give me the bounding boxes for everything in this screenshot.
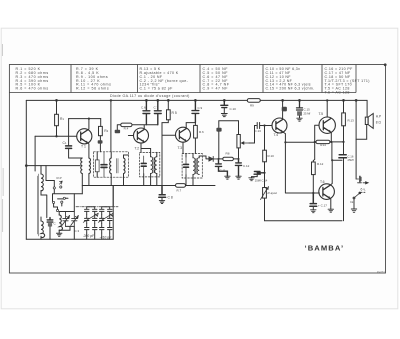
IF strip bottom bus (82, 185, 215, 187)
capacitor AGC blob (216, 128, 221, 132)
svg-text:+ C.17: + C.17 (318, 204, 327, 208)
pickup jack R.P contacts (53, 181, 62, 189)
svg-text:T.6: T.6 (320, 180, 325, 184)
svg-text:280 pF: 280 pF (83, 234, 95, 238)
wire rail drop to IF1 primary (110, 100, 112, 151)
svg-text:-410 pF: -410 pF (100, 235, 113, 239)
outer schematic frame (9, 65, 385, 274)
svg-text:C.13: C.13 (255, 129, 262, 133)
capacitor IF1 internal (101, 165, 107, 168)
IF2 leads (141, 149, 157, 186)
svg-text:C.10: C.10 (230, 107, 237, 111)
coil IF3 w1 (193, 158, 195, 175)
resistor R1 (56, 100, 58, 114)
parts table right border (355, 65, 357, 93)
coil IF2 w2 (155, 157, 157, 174)
speaker (365, 114, 373, 129)
band switch contacts (53, 197, 66, 211)
svg-text:R14: R14 (320, 143, 326, 147)
capacitor C16 (339, 155, 347, 158)
svg-text:H.P: H.P (376, 115, 381, 119)
ground C17 (311, 210, 316, 213)
svg-text:R2: R2 (104, 129, 108, 133)
wire osc coil top (59, 212, 65, 216)
wire T2 emitter to IF2 (140, 143, 142, 152)
capacitor C6 (143, 100, 150, 124)
resistor R5 (167, 100, 169, 109)
node R10 bottom (263, 172, 265, 174)
capacitor C8 electrolytic (159, 186, 166, 198)
wire T4 base (265, 125, 273, 127)
svg-text:C.6: C.6 (141, 106, 146, 110)
capacitor C1 (68, 119, 70, 146)
wire T1 emitter to IF1 (88, 143, 89, 158)
resistor R2 (100, 119, 102, 127)
node rail junctions (384, 63, 387, 66)
scan artifact marks left edge (2, 44, 5, 232)
ground C14 (249, 178, 254, 181)
antenna coil L2 (41, 221, 45, 237)
wire AGC line (26, 165, 80, 167)
capacitor C14 (254, 172, 264, 175)
ground C11 (225, 176, 230, 179)
svg-text:C.7: C.7 (154, 106, 159, 110)
volume potentiometer (237, 135, 240, 148)
svg-text:R.12 = 56 ohms: R.12 = 56 ohms (76, 87, 109, 91)
ferrite rod (38, 174, 39, 236)
ground C15 (297, 118, 302, 121)
svg-text:R.10: R.10 (268, 154, 275, 158)
svg-text:25Mf C.14: 25Mf C.14 (255, 179, 268, 183)
svg-text:T 1: T 1 (81, 145, 86, 149)
trimmer cap CT2 (71, 212, 79, 227)
wire T1 base line (35, 135, 77, 137)
svg-text:C.1 = 75 à 82 pF: C.1 = 75 à 82 pF (140, 87, 174, 91)
table divider 3 (199, 65, 201, 93)
table divider 4 (262, 65, 264, 93)
coil IF3 w2 (197, 158, 199, 175)
svg-text:8 Ω: 8 Ω (376, 121, 382, 125)
svg-text:T.5: T.5 (319, 112, 324, 116)
circuit labels (54, 103, 386, 274)
svg-text:R 5: R 5 (172, 111, 177, 115)
resistor R14 (316, 140, 330, 143)
svg-text:C.15: C.15 (304, 108, 311, 112)
svg-text:Diode OA.117 ou diode d’usage: Diode OA.117 ou diode d’usage (courant) (110, 94, 190, 98)
wire T2 base from IF1 (128, 135, 133, 137)
svg-text:R8: R8 (226, 152, 230, 156)
table divider 2 (137, 65, 139, 93)
wire T3 collector (186, 123, 195, 129)
svg-text:T.4: T.4 (274, 133, 279, 137)
svg-text:25 Mf: 25 Mf (304, 112, 311, 116)
collector blob T4 (282, 100, 284, 119)
wire L2 bottom to rail (40, 236, 42, 239)
transistor T1 (77, 129, 92, 144)
capacitor IF2 internal (141, 163, 146, 166)
svg-text:C 8: C 8 (168, 196, 173, 200)
svg-text:C.3: C.3 (75, 229, 80, 233)
wire trimmer tops/bottoms (59, 194, 74, 239)
wire T6 collector up (330, 160, 342, 185)
transistor T5 (319, 117, 335, 133)
svg-text:C.15 = 200 NF 6,3 v(chm.: C.15 = 200 NF 6,3 v(chm. (266, 87, 315, 91)
capacitor C12 (235, 159, 241, 176)
wire L1-L2 link (41, 191, 47, 222)
transistor T4 (272, 118, 287, 133)
diode D1 (206, 156, 209, 159)
resistor R9 on rail (247, 99, 260, 103)
coil osc primary w1 (81, 158, 83, 174)
wire rail to speaker (366, 100, 368, 117)
capacitor C9 (192, 100, 199, 122)
resistor R7 (on bus) (176, 184, 186, 188)
tuning gang section B (98, 207, 113, 239)
ground switch (351, 199, 356, 212)
capacitor C15 stack (297, 100, 303, 110)
svg-text:C1: C1 (63, 141, 67, 145)
transistor T2 (134, 128, 149, 143)
svg-text:T.6 = AC 128: T.6 = AC 128 (325, 90, 350, 94)
node base T4 (263, 124, 265, 126)
wire IF1 w3/w4 tops (111, 152, 128, 158)
wire osc coil bottom (58, 230, 60, 233)
wire T4 emitter down (283, 132, 315, 193)
svg-text:C.9: C.9 (198, 106, 203, 110)
gang top feeds (87, 186, 114, 240)
wire T5 base drop (315, 125, 319, 142)
wire IF1 w3/w4 bottoms (111, 174, 123, 186)
svg-text:6 v.: 6 v. (361, 188, 366, 192)
switch (355, 192, 366, 197)
capacitor IF3 internal (184, 164, 189, 167)
wire speaker bottom return (356, 125, 367, 140)
table divider 1 (70, 65, 72, 93)
capacitor C7 (154, 100, 161, 124)
ground C8 (159, 201, 164, 204)
ground osc (57, 233, 62, 236)
svg-text:T.2: T.2 (135, 147, 140, 151)
core IF3 (196, 159, 197, 174)
wire T5 collector to rail (326, 100, 328, 117)
wire R12 drop (313, 142, 314, 162)
svg-text:R ajust: R ajust (268, 191, 278, 195)
IF transformer 1 dashed can (94, 152, 129, 177)
coil osc secondary w2 (89, 158, 91, 174)
oscillator coil (59, 215, 62, 230)
core IF2 (153, 158, 154, 173)
ground T6 (328, 209, 333, 212)
wire T1 collector up (88, 119, 89, 130)
wire w1/w2 bottoms (82, 174, 89, 194)
dash-dot gang coupling line (76, 206, 118, 208)
svg-text:C.9 = 47 NF: C.9 = 47 NF (203, 87, 229, 91)
antenna coil L1 (41, 174, 43, 191)
core lines (117, 159, 118, 174)
svg-text:C.11: C.11 (220, 169, 226, 173)
tuning slug (95, 160, 99, 172)
svg-text:25Mf: 25Mf (348, 158, 354, 162)
top supply rail (26, 99, 367, 101)
table divider 5 (321, 65, 323, 93)
IF transformer 2 dashed can (140, 152, 160, 177)
resistor R8 (219, 158, 223, 160)
parts list text (16, 67, 370, 98)
svg-text:R.P: R.P (57, 176, 62, 180)
svg-text:R.6: R.6 (199, 130, 204, 134)
wire pot top to AGC cap (219, 121, 239, 135)
wire T5 emitter / junction down (331, 142, 333, 160)
svg-text:R.4: R.4 (124, 127, 129, 131)
svg-text:Int: Int (350, 200, 354, 204)
ground C10 (221, 114, 227, 117)
transistor T6 (319, 184, 335, 200)
battery terminal + arrow (356, 177, 368, 184)
wire T3 base (162, 135, 176, 185)
capacitor C17 (310, 193, 317, 206)
svg-text:PH.Bd: PH.Bd (377, 270, 385, 274)
resistor R4 (121, 123, 132, 127)
resistor R ajustable (264, 173, 266, 188)
resistor R13 (343, 100, 345, 113)
wire T5 emitter down (330, 132, 333, 142)
wire wiper to C13 (249, 126, 255, 144)
wire bottom-left ground rail (26, 238, 113, 240)
IF3 leads (186, 154, 206, 186)
capacitor C13 (255, 123, 265, 129)
svg-text:R.13: R.13 (348, 119, 355, 123)
wire T6 base (313, 192, 319, 194)
resistor R12 (312, 162, 316, 175)
wire battery feed (355, 100, 357, 179)
coil IF1 w4 (124, 158, 126, 174)
resistor R6 (194, 123, 196, 126)
svg-text:R1: R1 (60, 117, 64, 121)
capacitor C10 (221, 100, 228, 107)
tuning gang section A (83, 207, 98, 239)
wire switch links (46, 166, 82, 210)
transistor T3 (176, 127, 191, 142)
resistor R10 (264, 126, 266, 151)
svg-text:‘BAMBA’: ‘BAMBA’ (305, 243, 345, 252)
wire left vertical drop (25, 100, 27, 239)
IF transformer 3 dashed can (182, 154, 202, 179)
svg-text:C.16: C.16 (348, 155, 354, 159)
svg-text:R.12: R.12 (317, 162, 324, 166)
wire gang feed (112, 186, 114, 207)
trimmer cap CT1 (62, 212, 70, 227)
capacitor C2 electrolytic (47, 218, 53, 223)
coil IF2 w1 (151, 157, 153, 174)
wire antenna coupling vertical (34, 136, 36, 171)
wire T6 emitter to ground (329, 198, 332, 209)
svg-text:T.3: T.3 (178, 146, 183, 150)
svg-text:C.12: C.12 (243, 164, 250, 168)
wire T3 emitter to IF3 (182, 142, 184, 153)
svg-text:R.7: R.7 (177, 189, 182, 193)
svg-text:R.6 = 470 ohms: R.6 = 470 ohms (16, 87, 49, 91)
wire collector top link (69, 118, 101, 120)
ground C12 (236, 176, 241, 179)
svg-text:R9: R9 (250, 103, 254, 107)
wire C6/C7 bottom link (117, 125, 158, 130)
wire L1 top (40, 166, 42, 174)
coil IF1 w3 (110, 158, 112, 174)
capacitor C11 (215, 159, 227, 176)
parts table bottom border (9, 92, 356, 94)
